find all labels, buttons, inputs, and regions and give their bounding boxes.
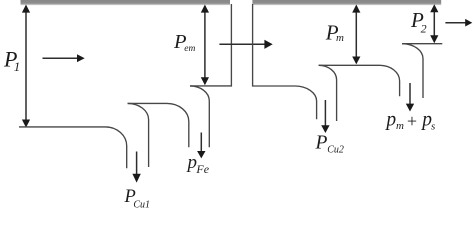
svg-text:p: p xyxy=(384,110,396,131)
svg-text:P: P xyxy=(315,133,328,154)
loss arrow PCu1 xyxy=(132,152,140,183)
svg-text:Cu2: Cu2 xyxy=(327,144,344,155)
output arrow P2 flow xyxy=(445,19,472,27)
wire boundary1 with PCu1 left wall xyxy=(19,127,127,168)
stator power rail bar (left) xyxy=(21,0,231,5)
wire boundary3 and stator right edge xyxy=(190,4,231,86)
loss arrow pms xyxy=(406,83,414,112)
svg-text:m: m xyxy=(336,32,344,44)
label Pem xyxy=(173,31,196,54)
svg-text:+: + xyxy=(406,111,418,131)
loss arrow PCu2 xyxy=(321,100,329,133)
wire PCu2 right wall (cusp) xyxy=(319,65,337,121)
label P2 xyxy=(410,8,427,35)
flow arrow (input) xyxy=(43,54,85,62)
label pFe xyxy=(186,152,210,176)
label PCu1 xyxy=(124,187,151,210)
wire pms right wall (cusp) xyxy=(402,44,423,98)
label Pm xyxy=(325,21,344,45)
svg-text:1: 1 xyxy=(14,59,20,74)
rotor power rail bar (right) xyxy=(252,0,441,5)
svg-text:em: em xyxy=(184,44,195,54)
svg-text:Cu1: Cu1 xyxy=(133,199,150,209)
svg-text:s: s xyxy=(431,120,435,132)
wire boundary2 with pFe left wall xyxy=(128,103,189,147)
measure arrow Pem xyxy=(201,5,209,86)
wire rotor left edge, boundaryA, PCu2 left wall xyxy=(253,4,317,119)
measure arrow P1 xyxy=(22,5,30,128)
wire boundaryC xyxy=(402,43,442,45)
label pm+ps xyxy=(384,110,435,133)
wire boundaryB with pms left wall xyxy=(319,65,400,96)
loss arrow pFe xyxy=(197,133,205,159)
svg-text:Fe: Fe xyxy=(195,162,209,176)
svg-text:m: m xyxy=(396,120,404,132)
measure arrow P2 xyxy=(430,4,438,43)
wire pFe right wall (cusp) xyxy=(190,86,209,147)
wire PCu1 right wall (cusp) xyxy=(128,103,149,167)
label P1 xyxy=(3,46,20,74)
label PCu2 xyxy=(315,133,344,156)
svg-text:2: 2 xyxy=(421,22,427,36)
air-gap crossing arrow xyxy=(219,40,272,49)
svg-text:p: p xyxy=(186,152,198,173)
measure arrow Pm xyxy=(352,5,360,65)
